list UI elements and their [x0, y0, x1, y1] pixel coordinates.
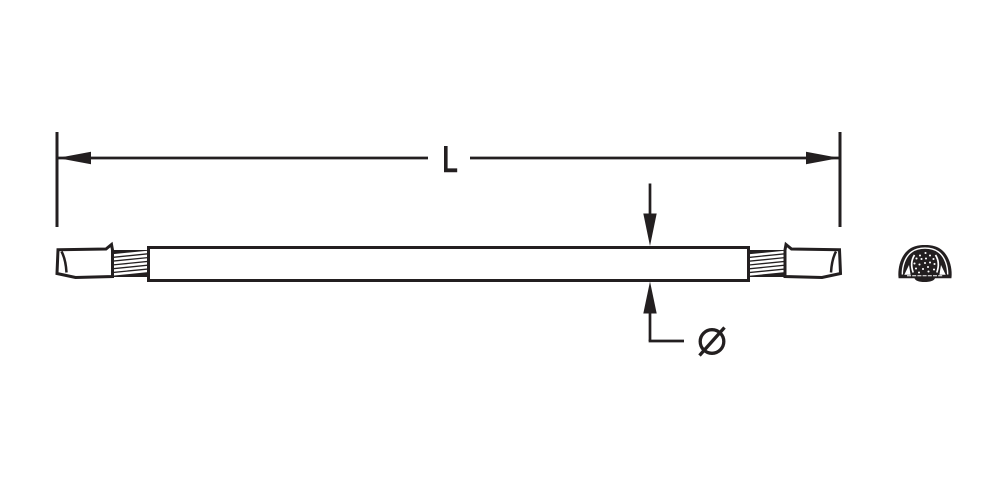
strand dots	[913, 252, 935, 274]
diameter arrow down	[643, 184, 684, 342]
leader horizontal	[649, 340, 684, 343]
extension line right	[839, 132, 842, 227]
diameter arrow up	[649, 311, 652, 341]
bottom bulge	[915, 278, 936, 282]
white base line	[907, 275, 943, 277]
inner white contour arc	[902, 248, 947, 274]
crimp tip right	[785, 245, 841, 278]
stranded wire left	[112, 250, 149, 277]
white triangle right	[939, 265, 945, 275]
label L	[444, 146, 457, 172]
outer dome	[898, 245, 951, 278]
extension line left	[56, 132, 59, 227]
crimp tip left inner arc	[62, 252, 67, 273]
stranded wire right	[749, 250, 786, 277]
white paren left	[912, 255, 915, 273]
dimension line L right segment	[470, 157, 839, 160]
dimension line L left segment	[58, 157, 428, 160]
arrowhead left	[58, 152, 92, 164]
white triangle left	[904, 265, 910, 275]
white paren right	[936, 255, 939, 273]
cross-section icon	[898, 245, 951, 282]
arrowhead right	[806, 152, 840, 164]
diameter symbol	[700, 328, 725, 356]
cable insulation body	[149, 248, 749, 281]
crimp tip left	[57, 245, 113, 278]
crimp tip right inner arc	[831, 252, 836, 273]
